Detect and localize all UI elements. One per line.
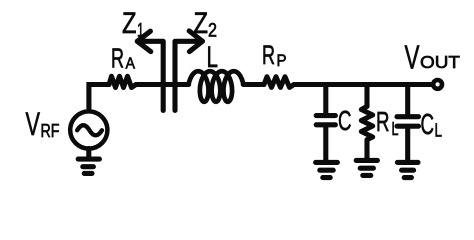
svg-text:V: V	[405, 39, 420, 76]
label RP	[262, 40, 287, 70]
ground	[78, 159, 99, 173]
svg-text:C: C	[338, 105, 352, 136]
label Z1	[122, 7, 144, 42]
wire	[323, 127, 328, 160]
ground	[397, 162, 418, 177]
label RL	[376, 106, 399, 139]
node Z reference plane arrow Z2	[175, 41, 202, 110]
svg-text:L: L	[207, 41, 219, 74]
wire	[294, 82, 431, 87]
label CL	[421, 109, 443, 141]
wire	[89, 85, 109, 112]
resistor RP	[264, 77, 294, 88]
ground	[356, 160, 377, 175]
wire	[364, 85, 369, 107]
svg-text:Z: Z	[194, 7, 209, 40]
svg-text:2: 2	[208, 21, 217, 42]
resistor RA	[109, 76, 136, 87]
svg-text:L: L	[435, 121, 443, 141]
svg-text:R: R	[262, 40, 275, 70]
svg-text:R: R	[376, 106, 390, 137]
wire	[364, 140, 369, 158]
capacitor C	[316, 116, 335, 125]
node VOUT terminal	[433, 80, 442, 89]
svg-text:RF: RF	[41, 121, 60, 141]
svg-text:R: R	[111, 43, 124, 74]
wire	[405, 128, 410, 160]
wire	[243, 82, 264, 87]
resistor RL	[361, 106, 372, 140]
inductor L	[189, 71, 244, 102]
wire	[323, 85, 328, 114]
ground	[316, 162, 338, 177]
label Z2	[194, 7, 218, 42]
node Z reference plane arrow Z1	[137, 41, 163, 110]
svg-text:C: C	[421, 109, 435, 141]
svg-text:OUT: OUT	[420, 52, 460, 72]
source VRF	[70, 111, 107, 148]
svg-text:A: A	[126, 56, 136, 73]
label RA	[111, 43, 135, 74]
wire	[136, 82, 189, 87]
wire	[405, 85, 410, 115]
svg-text:1: 1	[137, 21, 144, 42]
svg-text:P: P	[277, 51, 287, 70]
svg-text:V: V	[26, 106, 41, 142]
label VOUT	[405, 39, 461, 76]
svg-text:Z: Z	[122, 7, 137, 40]
label VRF	[26, 106, 60, 142]
wire	[86, 149, 91, 158]
capacitor CL	[397, 117, 419, 127]
svg-text:L: L	[392, 119, 399, 139]
